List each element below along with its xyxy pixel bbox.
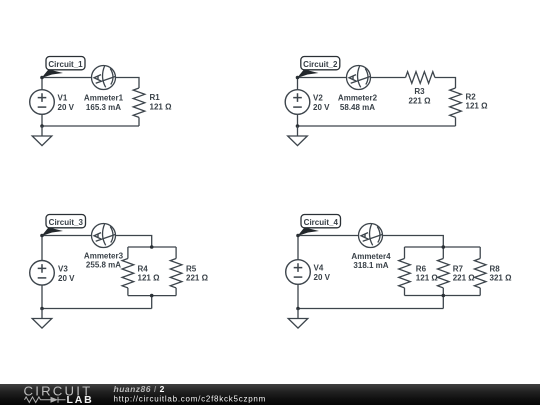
resistor R8 xyxy=(474,259,486,288)
wire node to ammeter4 xyxy=(298,235,359,237)
wire R4 bottom lead xyxy=(127,288,129,296)
wire bottom wire c3 xyxy=(42,308,152,310)
voltage source V1 xyxy=(30,90,55,115)
voltage source V3 xyxy=(30,261,55,286)
wire V4 bottom lead xyxy=(297,284,299,308)
svg-text:Ammeter2: Ammeter2 xyxy=(338,93,378,102)
svg-text:121 Ω: 121 Ω xyxy=(416,273,439,282)
footer bar xyxy=(0,384,540,405)
label Circuit_3 xyxy=(42,215,86,237)
svg-text:318.1 mA: 318.1 mA xyxy=(353,261,388,270)
wire V4 top lead xyxy=(297,236,299,260)
svg-text:20 V: 20 V xyxy=(58,274,75,283)
ammeter U Ammeter1 xyxy=(92,66,116,90)
node dot c3 railbottom xyxy=(150,294,154,298)
node dot c4 topleft xyxy=(296,234,300,238)
logo diode xyxy=(51,397,59,403)
wire bottom rail c1 xyxy=(42,125,139,127)
node dot c2 bottom xyxy=(296,124,300,128)
svg-text:LAB: LAB xyxy=(67,394,94,405)
svg-text:R7: R7 xyxy=(453,264,464,273)
wire R8 top lead xyxy=(479,247,481,259)
svg-text:Ammeter1: Ammeter1 xyxy=(84,93,124,102)
resistor R5 xyxy=(170,259,182,288)
wire R3 to R2 top xyxy=(435,78,456,89)
wire ammeter1 to R1 top xyxy=(116,78,140,89)
wire ammeter2 to R3 xyxy=(371,77,406,79)
wire ammeter4 to parallel top xyxy=(383,236,444,248)
wire parallel bottom stem c4 xyxy=(442,296,444,309)
wire bottom rail c3 xyxy=(128,295,176,297)
svg-text:R5: R5 xyxy=(186,264,197,273)
wire V3 bottom lead xyxy=(41,285,43,308)
node dot c3 topleft xyxy=(40,234,44,238)
wire R5 top lead xyxy=(175,247,177,259)
resistor R3 xyxy=(406,72,435,84)
ammeter U Ammeter2 xyxy=(347,66,371,90)
wire V1 top lead xyxy=(41,78,43,90)
svg-text:Ammeter4: Ammeter4 xyxy=(351,252,391,261)
svg-text:121 Ω: 121 Ω xyxy=(138,273,161,282)
svg-text:165.3 mA: 165.3 mA xyxy=(86,103,121,112)
svg-text:255.8 mA: 255.8 mA xyxy=(86,261,121,270)
svg-text:R3: R3 xyxy=(414,87,425,96)
logo squiggle resistor xyxy=(25,397,51,403)
svg-text:Circuit_2: Circuit_2 xyxy=(303,60,338,69)
svg-text:121 Ω: 121 Ω xyxy=(466,101,489,110)
wire bottom rail c4 xyxy=(405,295,481,297)
wire parallel bottom stem c3 xyxy=(151,296,153,309)
svg-text:R4: R4 xyxy=(138,264,149,273)
resistor R1 xyxy=(133,88,145,117)
wire R7 bottom lead xyxy=(442,288,444,296)
label Circuit_1 xyxy=(42,57,86,79)
wire node to ammeter3 xyxy=(42,235,92,237)
ground c2 xyxy=(288,126,308,146)
wire V2 bottom lead xyxy=(297,114,299,126)
svg-text:121 Ω: 121 Ω xyxy=(150,102,173,111)
svg-text:V2: V2 xyxy=(313,94,323,103)
wire node to ammeter2 xyxy=(298,77,347,79)
wire R6 top lead xyxy=(404,247,406,259)
wire node to ammeter1 xyxy=(42,77,92,79)
wire R1 bottom lead xyxy=(138,117,140,126)
wire ammeter3 to parallel top xyxy=(116,236,152,248)
wire R4 top lead xyxy=(127,247,129,259)
svg-text:Circuit_4: Circuit_4 xyxy=(304,218,339,227)
svg-text:20 V: 20 V xyxy=(314,273,331,282)
svg-text:R8: R8 xyxy=(490,264,501,273)
wire V3 top lead xyxy=(41,236,43,261)
node dot c3 railtop xyxy=(150,245,154,249)
ground c3 xyxy=(32,309,52,329)
svg-text:321 Ω: 321 Ω xyxy=(490,273,513,282)
label Circuit_2 xyxy=(297,57,340,79)
resistor R6 xyxy=(399,259,411,288)
node dot c4 railtop xyxy=(442,245,446,249)
wire V1 bottom lead xyxy=(41,114,43,126)
svg-text:20 V: 20 V xyxy=(58,103,75,112)
wire R5 bottom lead xyxy=(175,288,177,296)
svg-text:R1: R1 xyxy=(150,93,161,102)
svg-text:221 Ω: 221 Ω xyxy=(186,273,209,282)
voltage source V2 xyxy=(285,90,310,115)
svg-text:221 Ω: 221 Ω xyxy=(453,273,476,282)
resistor R2 xyxy=(450,88,462,117)
svg-text:R2: R2 xyxy=(466,92,477,101)
svg-text:Ammeter3: Ammeter3 xyxy=(84,252,124,261)
ammeter U Ammeter3 xyxy=(92,224,116,248)
voltage source V4 xyxy=(286,260,311,285)
svg-text:58.48 mA: 58.48 mA xyxy=(340,103,375,112)
svg-text:Circuit_1: Circuit_1 xyxy=(48,60,83,69)
svg-text:20 V: 20 V xyxy=(313,103,330,112)
svg-text:V4: V4 xyxy=(314,264,324,273)
svg-text:R6: R6 xyxy=(416,264,427,273)
node dot c2 top xyxy=(296,76,300,80)
svg-text:V3: V3 xyxy=(58,264,68,273)
ground c1 xyxy=(32,126,52,146)
wire R8 bottom lead xyxy=(479,288,481,296)
wire top rail c3 xyxy=(128,246,176,248)
svg-text:221 Ω: 221 Ω xyxy=(409,97,432,106)
resistor R7 xyxy=(438,259,450,288)
resistor R4 xyxy=(122,259,134,288)
node dot c3 bottomleft xyxy=(40,307,44,311)
node dot c1 bottom xyxy=(40,124,44,128)
ammeter U Ammeter4 xyxy=(359,224,383,248)
wire bottom rail c2 xyxy=(298,125,456,127)
node dot c4 railbottom xyxy=(442,294,446,298)
node dot c4 bottomleft xyxy=(296,307,300,311)
wire top rail c4 xyxy=(405,246,481,248)
wire R6 bottom lead xyxy=(404,288,406,296)
svg-text:huanz86 / 2: huanz86 / 2 xyxy=(114,384,165,394)
node dot c1 top xyxy=(40,76,44,80)
wire R7 top lead xyxy=(442,247,444,259)
ground c4 xyxy=(288,309,308,329)
svg-text:Circuit_3: Circuit_3 xyxy=(49,218,84,227)
svg-text:V1: V1 xyxy=(58,94,68,103)
svg-text:http://circuitlab.com/c2f8kck5: http://circuitlab.com/c2f8kck5czpnm xyxy=(114,394,267,403)
wire bottom wire c4 xyxy=(298,308,443,310)
label Circuit_4 xyxy=(298,215,341,237)
wire V2 top lead xyxy=(297,78,299,90)
wire R2 bottom lead xyxy=(455,117,457,126)
